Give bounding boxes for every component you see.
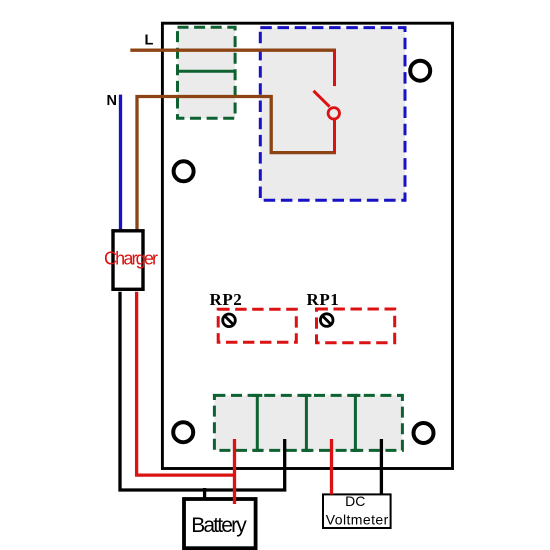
svg-text:Battery: Battery <box>191 514 247 537</box>
svg-text:RP2: RP2 <box>210 290 242 309</box>
svg-text:Voltmeter: Voltmeter <box>326 511 389 527</box>
svg-text:RP1: RP1 <box>307 290 339 309</box>
svg-text:N: N <box>107 93 117 109</box>
svg-text:L: L <box>145 33 154 49</box>
svg-text:DC: DC <box>345 493 365 509</box>
svg-text:Charger: Charger <box>104 249 158 269</box>
